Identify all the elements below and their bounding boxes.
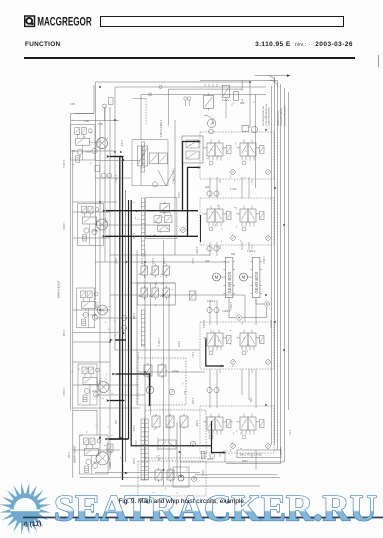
pump unit P4 pump cross [100, 384, 107, 391]
wire vertical x245 [244, 295, 246, 322]
hoist control row 1 left valve bottom circle [209, 161, 213, 165]
hoist control row 4 right valve body [240, 417, 248, 430]
wire horizontal run 2 [75, 113, 94, 115]
wire top bus 1 [96, 81, 251, 83]
annotation speckle [71, 99, 266, 504]
center manifold frame [146, 198, 177, 239]
hoist control row 3 left valve arrows [209, 335, 214, 343]
inlet orifice rect [109, 98, 114, 105]
manifold lower rect [158, 225, 170, 231]
wire horizontal run 6 [73, 201, 117, 203]
wire staircase top-left [71, 85, 94, 114]
wire horizontal run 14 [190, 294, 245, 296]
wire horizontal run 3 [71, 150, 115, 152]
hoist control row 1 outer frame [200, 132, 274, 179]
wire main pressure bus dark 1 [109, 157, 120, 440]
hoist control row 2 drain stub [219, 245, 221, 249]
hoist control row 3 left valve body [207, 333, 215, 346]
top cluster outer frame [169, 89, 243, 125]
hoist control row 1 drain stub [219, 179, 221, 183]
pump unit P5 (whip hoist) valve row circle [97, 439, 101, 443]
wire vertical pair x177 [176, 422, 178, 477]
pump unit P3 valve row circle [94, 292, 98, 296]
relief valve V11 [222, 85, 230, 97]
feeder curve 1 [268, 76, 275, 83]
logo icon square [25, 16, 35, 26]
pump unit P5 (whip hoist) small circle [86, 459, 91, 464]
counterbalance valve V10 [204, 93, 214, 110]
gauge G1 small circle [209, 129, 214, 134]
hoist control row 1 left valve arrows [209, 145, 214, 153]
bottom manifold arrows [160, 442, 166, 448]
pump unit P3 lower ladder [82, 319, 86, 326]
gauge [231, 444, 236, 449]
hoist control row 4 right valve springs [237, 421, 240, 422]
pump unit P2 valve row rect B [88, 207, 93, 214]
pump unit P2 big pump circle [97, 219, 108, 230]
pump unit P1 pump pair circle [92, 148, 97, 153]
wire vertical x141 [140, 95, 142, 141]
title box 306.1 [237, 450, 281, 457]
pump unit P5 (whip hoist) pump pair circle [92, 463, 97, 468]
gauge [231, 170, 236, 175]
hoist control row 4 left valve tiny valve aside [227, 420, 232, 428]
wire horizontal run 21 [138, 371, 205, 373]
wire bus dark 3 [128, 200, 130, 439]
gauge [266, 170, 271, 175]
wire vertical x175 [174, 120, 176, 255]
top frame line [241, 81, 243, 92]
pump unit P2 pump pair circle [92, 229, 97, 234]
center valve funnel left [158, 170, 166, 186]
center valve flat pair B [158, 153, 167, 164]
wire dark segment y400 [110, 400, 125, 402]
wire dark pilot line B1 [183, 142, 200, 211]
hoist control row 1 right valve springs [237, 147, 240, 148]
hoist control row 2 left valve springs [204, 213, 207, 214]
center valve tall body A [138, 146, 143, 166]
hoist control row 1 right valve tiny valve aside [260, 146, 265, 154]
hoist control row 4 left valve ports [208, 430, 210, 435]
wire right feeder 5 [283, 88, 285, 462]
hoist control row 4 right valve ports [241, 430, 243, 435]
center-bottom manifold frame [145, 410, 206, 458]
header empty box [100, 16, 344, 27]
wire inter-row connector 6 [216, 242, 218, 256]
wire inter-row connector 10 [216, 300, 218, 325]
hoist control row 1 left valve tiny valve aside [227, 146, 232, 154]
hoist control row 1 right valve arrows [242, 145, 247, 153]
pump P1 sub-components below [95, 165, 100, 171]
gauge [181, 228, 186, 233]
pump unit P5 (whip hoist) big pump circle [96, 452, 109, 465]
pump unit P1 small circle [77, 149, 82, 154]
hoist control row 2 left valve arrows [209, 211, 214, 219]
pump unit P4 big pump circle [98, 382, 109, 393]
figure caption [119, 498, 246, 505]
pump unit P2 lower ladder [83, 235, 87, 242]
hoist control row 4 left valve bottom circle [209, 435, 213, 439]
wire inter-row connector 17 [255, 369, 257, 408]
loop E internal valve [107, 444, 113, 452]
wire horizontal run 24 [73, 407, 140, 409]
pilot valve trio A3 [161, 264, 170, 279]
wire inter-row connector 1 [209, 177, 211, 198]
pilot control unit inner 2 [186, 151, 199, 159]
gearbox link 1 [221, 276, 226, 278]
pump unit P2 pump cross [99, 221, 106, 228]
wire horizontal run 18 [73, 341, 110, 343]
wire inter-row connector 3 [241, 177, 243, 198]
gearbox drop 2 [255, 298, 257, 304]
hoist control row 4 right valve tiny valve aside [260, 420, 265, 428]
hoist control row 4 drain stub [219, 453, 221, 457]
wire inter-row connector 11 [241, 322, 243, 325]
pilot valve trio A1 [139, 264, 148, 279]
pump unit P2 frame [78, 204, 104, 246]
bus tap circle 1 [149, 93, 152, 96]
wire horizontal run 22 [73, 384, 138, 386]
wire inter-row connector 14 [241, 369, 243, 395]
pilot line top cluster [225, 97, 227, 118]
spring [172, 370, 179, 372]
filter F1 box [242, 125, 248, 131]
wire bus dark 4 [131, 200, 211, 446]
hoist control row 4 right valve bottom circle [242, 435, 246, 439]
hoist control row 2 right valve body [240, 209, 248, 222]
pilot valve trio B1 [139, 286, 148, 301]
feeder curve 2 [270, 81, 278, 88]
gauge [192, 477, 197, 482]
gauge [208, 119, 216, 127]
pump unit P4 valve row rect A [82, 367, 87, 374]
center valve unit line [140, 166, 142, 185]
wire horizontal run 7 [73, 211, 110, 213]
wire vertical x255.5 [255, 95, 257, 189]
hoist control row 2 right valve arrows [242, 211, 247, 219]
gauge [169, 389, 175, 395]
wire vertical x169 [168, 295, 170, 478]
pump unit P2 small circle [84, 228, 89, 233]
pump unit P1 port lines [77, 134, 79, 138]
wire left boundary x70.6 [70, 114, 72, 411]
wire horizontal run 12 [130, 282, 175, 284]
watermark underline [23, 517, 383, 519]
pump unit P2 valve row rect A [82, 207, 87, 214]
gauge pair B [207, 246, 212, 251]
pump unit P4 valve row circle [96, 368, 100, 372]
wire vertical x105 [104, 107, 106, 262]
center valve tall body B [143, 146, 148, 166]
MacGregor logo [24, 15, 114, 28]
bottom block rect [173, 467, 189, 487]
wire inter-row connector 2 [216, 177, 218, 198]
wire top bus 2 [115, 86, 266, 88]
hoist control row 3 right valve tiny valve aside [260, 336, 265, 344]
page number [24, 521, 42, 529]
pump unit P4 lower ladder [83, 395, 87, 402]
pilot valve trio B2 [150, 286, 159, 301]
hoist control row 4 left valve springs [204, 421, 207, 422]
gearbox link 2 [248, 276, 253, 278]
wire horizontal run 1 [71, 120, 119, 122]
hoist control row 1 right valve ports [241, 156, 243, 161]
gearbox drop 1 [228, 298, 230, 318]
pump [146, 386, 154, 394]
wire horizontal run 4 [95, 160, 140, 162]
pilot control unit inner [186, 140, 199, 148]
circle below row4 [210, 454, 215, 459]
hoist control row 2 left valve bottom circle [209, 227, 213, 231]
wire vertical x137 [136, 250, 138, 405]
wire horizontal run 9 [73, 237, 110, 239]
logo icon swirl [26, 18, 32, 24]
shuttle valve right of trio [189, 291, 196, 300]
wire vertical x250 [249, 82, 251, 128]
terminal strip T1 [141, 142, 144, 172]
hoist control row 3 right valve ports [241, 346, 243, 351]
pump unit P5 (whip hoist) port lines [86, 445, 88, 449]
hoist control row 4 left valve body [207, 417, 215, 430]
feeder arrowhead [287, 74, 290, 77]
wire vertical x95.5 [95, 82, 97, 300]
wire boundary bottom corner [73, 410, 97, 435]
hoist control row 2 right valve springs [237, 213, 240, 214]
hoist control row 1 left valve body [207, 143, 215, 156]
loop E internal ticks [130, 440, 132, 447]
wire vertical x110 [109, 107, 111, 470]
wire inter-row connector 9 [209, 300, 211, 325]
single gauge E [122, 316, 127, 321]
pump unit P1 valve row rect A [75, 128, 80, 135]
wire return bus light [125, 190, 127, 462]
wire inter-row connector 15 [248, 369, 250, 400]
spring [222, 99, 229, 101]
hoist control row 1 left valve springs [204, 147, 207, 148]
wire dark segment F [212, 421, 226, 453]
wire dark segment D [116, 374, 150, 406]
center valve circle [153, 182, 158, 187]
wire bottom-right v [280, 447, 282, 464]
pump unit P2 valve row circle [95, 208, 99, 212]
pump unit P1 valve row rect B [81, 128, 86, 135]
wire horizontal run 19 [115, 349, 200, 351]
spring [85, 151, 92, 153]
hoist control row 2 left valve body [207, 209, 215, 222]
wire dark segment G [115, 339, 126, 341]
pump unit P1 pump cross [99, 140, 106, 147]
header rule [24, 57, 355, 59]
row3 center valve a [144, 363, 152, 378]
gauge [266, 360, 271, 365]
dashed vertical x146 [145, 99, 147, 126]
pilot control unit arrows [187, 141, 197, 147]
terminal strip T2 [141, 198, 144, 256]
right margin artifact [378, 55, 379, 67]
bottom manifold valve b [166, 414, 174, 429]
wire horizontal run 10 [110, 254, 210, 256]
gauge feed arc [204, 115, 212, 119]
wire dark feed corner A [110, 156, 124, 158]
pump unit P2 main valve body [83, 217, 97, 224]
gauge pair C [207, 307, 212, 312]
wire horizontal run 16 [95, 317, 137, 319]
wire vertical x150.5 [150, 283, 152, 415]
pump unit P4 pump pair circle [93, 392, 98, 397]
wire horizontal run 17 [73, 332, 120, 334]
wire horizontal run 8 [95, 224, 170, 226]
hoist control row 3 drain stub [219, 369, 221, 373]
terminal strip T4b [145, 419, 148, 480]
trio row B frame [137, 283, 175, 305]
pump unit P5 (whip hoist) lower ladder [85, 466, 89, 473]
gauge [266, 444, 271, 449]
hoist control row 1 left valve ports [208, 156, 210, 161]
pump unit P5 (whip hoist) valve row rect B [90, 438, 95, 445]
check valve CV1 [264, 301, 270, 307]
center block row3 frame [138, 358, 186, 405]
wire horizontal run 23 [95, 394, 145, 396]
gear box 1 [223, 258, 235, 298]
single gauge F [122, 326, 127, 331]
hoist control row 3 right valve arrows [242, 335, 247, 343]
pump unit P1 lower ladder [76, 156, 80, 163]
pump unit P4 small circle [84, 388, 89, 393]
hoist control row 2 left valve ports [208, 222, 210, 227]
hoist control row 2 outer frame [200, 198, 274, 245]
hoist control row 4 outer frame [200, 406, 274, 453]
pump unit P5 (whip hoist) pump cross [99, 454, 107, 462]
mini ladder below row4 [201, 451, 205, 458]
hoist control row 3 right valve body [240, 333, 248, 346]
wire horizontal run 13 [110, 294, 190, 296]
pump unit P1 frame [71, 125, 95, 160]
wire horizontal run 5 [95, 177, 131, 179]
wire horizontal run 26 [80, 477, 280, 479]
spring [92, 390, 99, 392]
spring [91, 314, 98, 316]
wire inter-row connector 18 [224, 450, 226, 462]
hoist control row 3 left valve ports [208, 346, 210, 351]
bottom valve b [167, 468, 174, 482]
wire vertical x115 [114, 87, 116, 350]
hoist control row 2 right valve tiny valve aside [260, 212, 265, 220]
pump unit P3 pump cross [100, 307, 106, 313]
wire top feeder horizontal 1 [255, 75, 288, 77]
pump unit P5 (whip hoist) frame [80, 435, 109, 474]
pump unit P3 valve row rect A [81, 291, 86, 298]
top small ticks [204, 84, 206, 87]
pump unit P3 frame [77, 288, 95, 328]
hoist control row 4 left valve arrows [209, 419, 214, 427]
wire horizontal run 11 [95, 261, 230, 263]
center valve unit frame [132, 140, 168, 186]
wire right feeder 2 [274, 77, 276, 445]
wire horizontal run 27 [120, 485, 260, 487]
pump [178, 475, 184, 481]
wire horizontal run 28 [180, 461, 284, 463]
gauge pair D [207, 387, 212, 392]
check valve CV2 [236, 314, 242, 320]
wire main pressure bus dark 2 [122, 157, 124, 481]
manifold valve V21 [160, 202, 170, 214]
bottom small cluster frame [138, 461, 206, 496]
wire h 98.5 [133, 98, 146, 100]
wire vertical pair x180 [179, 422, 181, 477]
pump unit P3 pump pair circle [92, 315, 97, 320]
wire bottom-right h [226, 463, 281, 465]
manifold flat rect B [165, 216, 173, 223]
center valve funnel right [166, 170, 174, 186]
manifold lower arrows [159, 226, 164, 230]
wire left boundary x72.8 [72, 150, 74, 478]
arrowheads [103, 140, 226, 474]
sensor stems [185, 100, 187, 106]
document number [255, 41, 353, 48]
pump unit P3 small circle [83, 312, 88, 317]
sensor circle pair [184, 97, 187, 100]
wire right feeder 1 [271, 86, 273, 445]
pilot control unit housing [182, 136, 203, 163]
FUNCTION heading [25, 41, 60, 48]
manifold flat rect A [154, 216, 162, 223]
wire vertical x100 [99, 121, 101, 455]
wire dark emphasis row2 left [200, 215, 202, 242]
wire horizontal run 25 [73, 449, 120, 451]
wire inter-row connector 5 [209, 242, 211, 256]
pump unit P4 port lines [84, 374, 86, 378]
wire inter-row connector 4 [248, 177, 250, 198]
pilot valve trio A2 [150, 264, 159, 279]
cooler circle [251, 126, 257, 132]
pump unit P4 main valve body [83, 378, 97, 385]
pump unit P1 valve row circle [88, 129, 92, 133]
motor M2 [240, 273, 248, 281]
wire right feeder 6 [287, 92, 289, 410]
gearbox drop 3 [229, 317, 236, 319]
hoist control row 3 right valve springs [237, 337, 240, 338]
pilot valve trio B3 [161, 286, 170, 301]
center valve tall diag [138, 148, 147, 164]
wire dark pilot line B2 [188, 167, 200, 236]
wire right feeder 3 [277, 81, 279, 451]
orifice plate [233, 92, 238, 101]
bottom valve a [155, 468, 162, 482]
bottom manifold lower rect [158, 440, 176, 449]
pump unit P5 (whip hoist) valve row rect A [84, 438, 89, 445]
hoist control row 3 left valve tiny valve aside [227, 336, 232, 344]
pump unit P2 port lines [84, 213, 86, 217]
wire inter-row connector 13 [216, 369, 218, 408]
center valve flat pair A [149, 153, 158, 164]
terminal strip T4a [141, 419, 144, 480]
wire top feeder horizontal 2 [200, 80, 278, 82]
hoist control row 1 right valve bottom circle [242, 161, 246, 165]
spring [92, 230, 99, 232]
wire vertical x163.5 [163, 240, 165, 486]
pump unit P1 main valve body [76, 138, 90, 145]
spring [94, 461, 101, 463]
wire horizontal run 30 [95, 472, 200, 474]
gearbox drop 4 [242, 317, 267, 319]
wire top bus 3 [141, 94, 266, 96]
hoist control row 2 left valve tiny valve aside [227, 212, 232, 220]
terminal strip T3 [141, 310, 144, 346]
wire dark rail C2 [106, 235, 199, 237]
inlet circle [103, 104, 107, 108]
wire dark rail C1 [106, 210, 198, 212]
hoist control row 3 outer frame [200, 322, 274, 369]
